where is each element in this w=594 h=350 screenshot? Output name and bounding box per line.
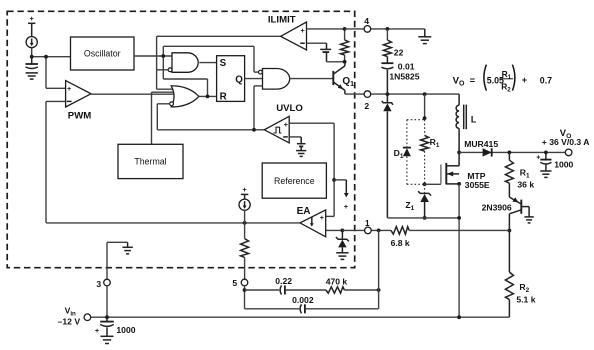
diode 1N5825 (catch) [382, 72, 420, 218]
svg-text:2: 2 [364, 101, 369, 111]
wire pin 5 to compensation network [244, 286, 246, 309]
wire UVLO output to G3 bottom input [254, 86, 263, 130]
transistor Q1 (NPN output switch) [333, 62, 354, 94]
wire source rail (negative) [387, 217, 459, 219]
wire pin-2 rail to gate network [424, 94, 426, 118]
junction P (drain node) [457, 151, 461, 155]
pin 2 [364, 91, 371, 111]
wire pin 3 to ground stub [107, 242, 128, 279]
junction E (UVLO node) [252, 128, 256, 132]
wire / internal rail from current source to oscillator and PWM [32, 48, 71, 89]
svg-text:+: + [67, 84, 71, 93]
junction D (R node) [206, 95, 210, 99]
svg-text:4: 4 [364, 16, 369, 26]
junction W [377, 229, 381, 233]
svg-text:=: = [470, 75, 475, 85]
junction C (oscillator node) [161, 54, 165, 58]
ground at pin 3 [122, 242, 132, 254]
op-amp UVLO comparator [264, 103, 303, 143]
wire pin 4 (VCC) [345, 28, 425, 30]
svg-text:1N5825: 1N5825 [389, 72, 419, 82]
svg-text:2N3906: 2N3906 [482, 202, 512, 212]
junction K [423, 116, 427, 120]
svg-text:Oscillator: Oscillator [84, 49, 121, 59]
svg-text:UVLO: UVLO [276, 103, 303, 114]
svg-text:0.7: 0.7 [540, 76, 552, 86]
capacitor CT (timing) to ground [26, 57, 38, 79]
svg-text:22: 22 [394, 48, 404, 58]
wire G3 output to Q1 base [290, 78, 333, 80]
svg-text:MUR415: MUR415 [464, 139, 498, 149]
transistor 2N3906 (PNP level shift) [482, 197, 534, 230]
svg-text:470 k: 470 k [326, 277, 348, 287]
svg-text:+: + [522, 75, 527, 85]
junction Z [105, 315, 109, 319]
wire 6.8k to feedback node [409, 229, 509, 231]
svg-text:+: + [242, 185, 247, 194]
svg-text:36 k: 36 k [517, 179, 534, 189]
svg-text:0.002: 0.002 [292, 295, 314, 305]
svg-text:+: + [30, 14, 35, 23]
junction Y [377, 288, 381, 292]
wire thermal shutdown to OR gate G2 [152, 92, 177, 144]
input terminal Vin [58, 306, 91, 327]
junction G [343, 60, 347, 64]
wire oscillator output to AND gate G1 [134, 55, 172, 57]
resistor R2 5.1k (divider bottom) [505, 231, 535, 318]
wire oscillator to gate G3 blanking input [163, 46, 258, 72]
wire oscillator to latch-R node (feedback) [163, 56, 207, 96]
svg-text:6.8 k: 6.8 k [391, 238, 410, 248]
wire gate lead [425, 183, 441, 185]
resistor RSC (current sense) [341, 29, 349, 62]
junction AA [457, 315, 461, 319]
junction J [423, 92, 427, 96]
wire drain node to output [459, 151, 568, 153]
resistor R1 (gate) [421, 135, 440, 151]
wire G1 output to latch S input [199, 62, 216, 64]
OR gate G2 (latch reset) [170, 86, 199, 107]
svg-text:1000: 1000 [116, 325, 135, 335]
svg-text:+ 36 V/0.3 A: + 36 V/0.3 A [542, 137, 590, 147]
capacitor 0.01 (snubber) [381, 57, 414, 95]
svg-text:3: 3 [96, 279, 101, 289]
op-amp ILIMIT comparator [268, 15, 307, 50]
junction U (comp node) [243, 221, 247, 225]
resistor to pin 5 [241, 210, 249, 279]
junction A [30, 55, 34, 59]
capacitor 1000 (input filter) [95, 317, 136, 343]
junction T (reference rail) [332, 178, 336, 182]
wire pin 3 to input rail [106, 286, 108, 317]
IC dashed border (MC34166) [7, 11, 355, 267]
junction L (gate node) [423, 182, 427, 186]
reference block [262, 163, 326, 198]
junction I [386, 92, 390, 96]
junction F [343, 27, 347, 31]
resistor 22 (snubber) [383, 29, 403, 58]
wire G2 output to latch R input [199, 95, 217, 97]
wire pin 1 (feedback) [342, 229, 391, 231]
svg-text:0.01: 0.01 [398, 61, 415, 71]
svg-text:+: + [95, 328, 99, 335]
reference output arrow [334, 180, 349, 211]
current source I1 (oscillator charge) [26, 14, 37, 48]
svg-text:1000: 1000 [554, 160, 573, 170]
junction H [386, 27, 390, 31]
svg-text:1: 1 [365, 218, 370, 228]
svg-text:EA: EA [297, 206, 311, 217]
pin 3 [96, 279, 110, 289]
wire ILIMIT + input to pin 4 node [307, 28, 345, 30]
junction X [243, 288, 247, 292]
svg-text:Thermal: Thermal [134, 157, 166, 167]
svg-text:+: + [300, 26, 304, 35]
capacitor 1000 (output filter) [536, 152, 573, 177]
svg-text:Reference: Reference [274, 176, 315, 186]
wire UVLO + input to reference rail [289, 123, 334, 216]
battery offset and ground at UVLO - input [289, 137, 306, 157]
wire PWM output to OR gate G2 [91, 93, 176, 95]
resistor 6.8k [391, 227, 410, 249]
diode MUR415 (rectifier) [464, 139, 498, 157]
current source I2 (EA bias) [239, 185, 250, 210]
junction V [341, 229, 345, 233]
junction Q2n [544, 151, 548, 155]
svg-text:3055E: 3055E [465, 180, 490, 190]
junction N (source) [457, 182, 461, 186]
dotted connections of gate clamp network [407, 120, 425, 185]
wire pin 2 (switch output) [345, 93, 459, 95]
SR latch U2 [217, 56, 245, 103]
svg-text:S: S [220, 58, 227, 69]
svg-text:5: 5 [232, 278, 237, 288]
capacitor 0.002 (comp) [245, 230, 379, 313]
formula VO = (5.05 R1/R2) + 0.7 [453, 65, 553, 94]
junction M [423, 216, 427, 220]
pin 1 [365, 218, 372, 234]
AND gate G3 (output driver) [259, 69, 290, 90]
diode D1 (gate clamp) [394, 148, 411, 161]
wire MOSFET source to negative rail [458, 184, 460, 317]
inductor L [456, 94, 477, 152]
output terminal VO [542, 127, 590, 156]
resistor R1 36k (divider top) [505, 152, 534, 197]
wire input rail (-12V) [91, 316, 510, 318]
op-amp PWM comparator [66, 81, 92, 122]
svg-text:+: + [344, 202, 349, 211]
op-amp EA (error amplifier) [297, 206, 343, 237]
svg-text:L: L [471, 114, 477, 124]
svg-text:Q: Q [235, 75, 243, 86]
junction O [457, 216, 461, 220]
battery offset at ILIMIT - input [307, 43, 345, 62]
svg-text:–12 V: –12 V [58, 317, 81, 327]
zener Z1 (gate protection) [405, 184, 431, 218]
wire ILIMIT output to G1 inverted input and G2 top input [157, 36, 281, 89]
pin 5 [232, 278, 247, 288]
transistor MTP3055E (N-MOSFET) [441, 152, 490, 190]
junction R1top [508, 151, 512, 155]
thermal block [118, 144, 183, 178]
junction B [44, 55, 48, 59]
junction S2 (feedback node) [508, 229, 512, 233]
svg-text:0.22: 0.22 [275, 276, 292, 286]
wire EA output [46, 222, 300, 224]
capacitor 0.22 (comp) [245, 276, 293, 294]
svg-text:5.1 k: 5.1 k [516, 295, 535, 305]
zener at EA inverting input [336, 230, 349, 259]
svg-text:R: R [220, 91, 227, 102]
wire EA output to PWM inverting input [46, 101, 68, 222]
wire UVLO output to OR gate G2 inverted input [157, 104, 264, 130]
svg-text:+: + [284, 120, 288, 129]
oscillator block [71, 37, 135, 70]
wire latch Q output to gate G3 [245, 78, 263, 80]
svg-text:+: + [320, 213, 324, 222]
svg-text:ILIMIT: ILIMIT [268, 15, 296, 26]
AND gate G1 (latch set) [168, 53, 198, 73]
svg-text:PWM: PWM [68, 110, 91, 121]
ground at pin 4 rail [418, 29, 431, 44]
svg-text:+: + [536, 154, 540, 161]
resistor 470k (comp) [285, 277, 379, 294]
pin 4 [364, 16, 371, 32]
